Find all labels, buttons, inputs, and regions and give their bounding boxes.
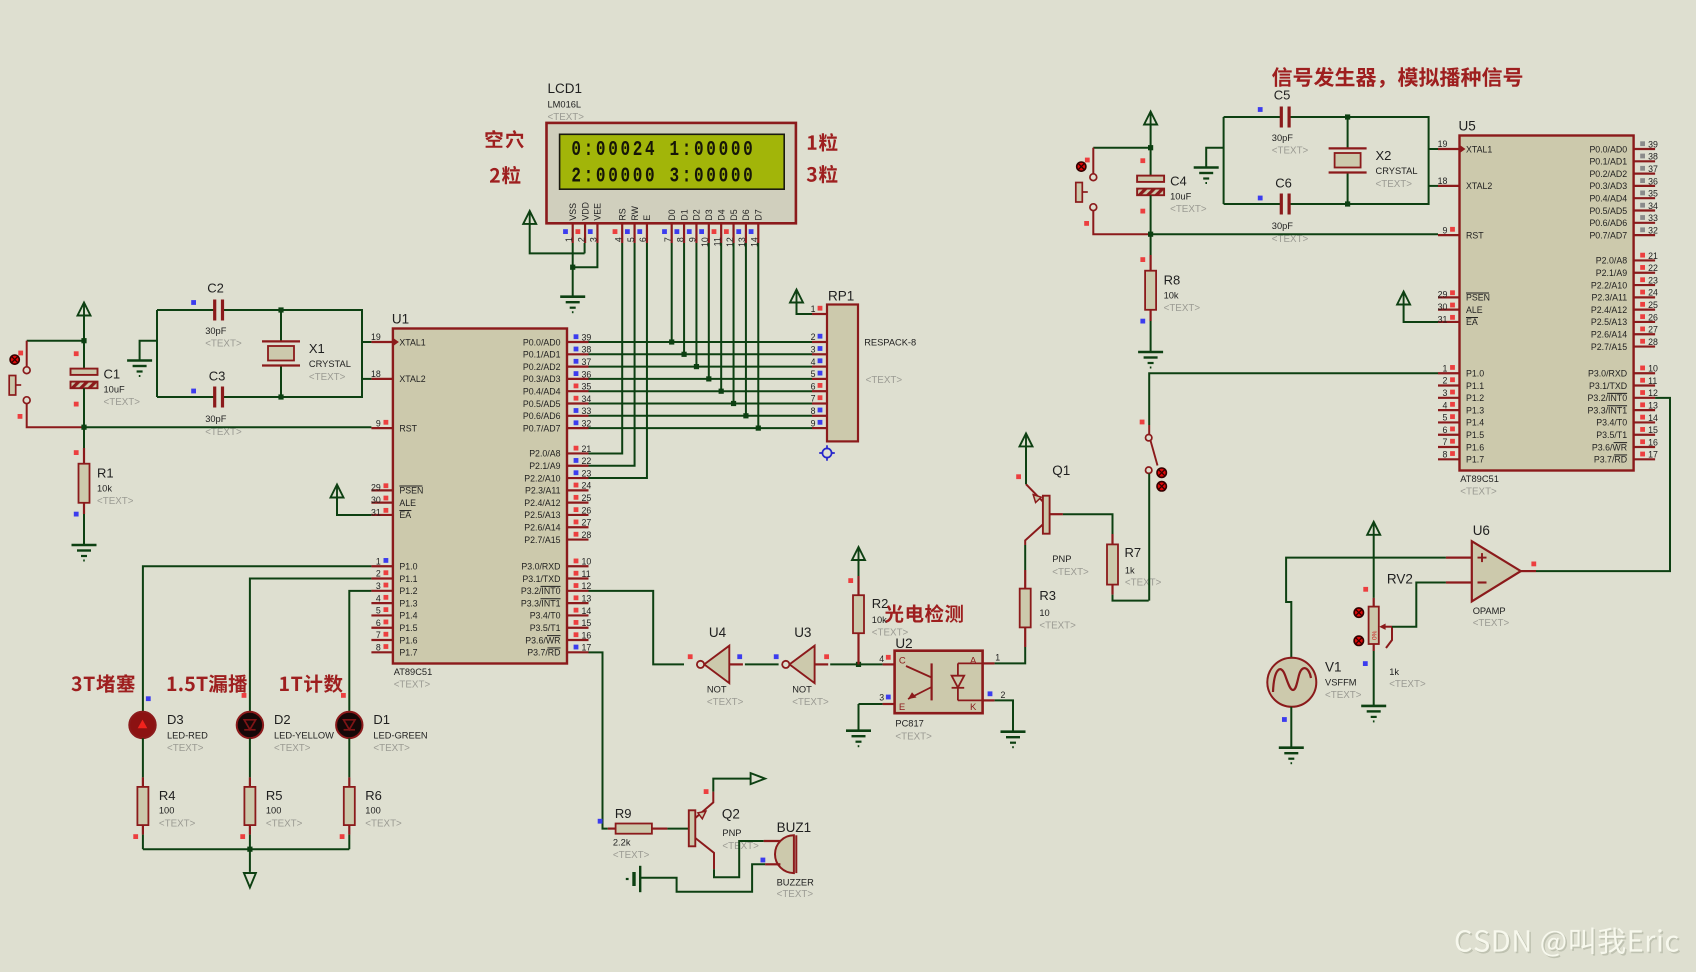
- U1 pin 25 P2.4/A12: [567, 502, 589, 504]
- resistor R1 10k: [83, 427, 85, 448]
- wire U2 pin1 to R3: [995, 647, 1026, 663]
- svg-text:2: 2: [1442, 376, 1447, 386]
- svg-text:P3.3/INT1: P3.3/INT1: [521, 598, 561, 608]
- svg-text:V1: V1: [1325, 660, 1342, 675]
- U5 pin 30 ALE: [1438, 309, 1460, 311]
- svg-text:33: 33: [582, 406, 592, 416]
- svg-text:LED-RED: LED-RED: [167, 730, 208, 740]
- svg-text:1: 1: [1442, 363, 1447, 373]
- svg-text:30pF: 30pF: [1272, 221, 1294, 231]
- U5 pin 17 P3.7/RD: [1634, 458, 1656, 460]
- svg-text:RST: RST: [399, 423, 417, 433]
- ground: [1138, 351, 1163, 354]
- svg-text:LED-GREEN: LED-GREEN: [373, 730, 427, 740]
- svg-text:6: 6: [811, 381, 816, 391]
- svg-text:30pF: 30pF: [1272, 133, 1294, 143]
- node D6 junction: [743, 413, 748, 418]
- svg-text:P0.5/AD5: P0.5/AD5: [523, 399, 561, 409]
- svg-text:P2.0/A8: P2.0/A8: [529, 449, 560, 459]
- power arrow LCD VDD: [523, 211, 536, 224]
- node XTAL taps: [278, 307, 283, 312]
- U5 pin 29 PSEN: [1438, 296, 1460, 298]
- svg-text:R3: R3: [1039, 588, 1056, 603]
- svg-text:P1.1: P1.1: [399, 574, 417, 584]
- node D3 junction: [706, 376, 711, 381]
- svg-text:8: 8: [376, 643, 381, 653]
- svg-text:7: 7: [811, 394, 816, 404]
- svg-text:P0.2/AD2: P0.2/AD2: [523, 362, 561, 372]
- svg-text:13: 13: [582, 594, 592, 604]
- power arrow RV2: [1367, 522, 1380, 535]
- U5 pin 13 P3.3/INT1: [1634, 409, 1656, 411]
- svg-text:U5: U5: [1459, 119, 1476, 134]
- svg-text:P0.7/AD7: P0.7/AD7: [1589, 230, 1627, 240]
- svg-text:P3.1/TXD: P3.1/TXD: [522, 574, 560, 584]
- U2 pin 2 K: [983, 699, 995, 701]
- U1 pin 7 P1.6: [371, 639, 393, 641]
- node D1 junction: [681, 352, 686, 357]
- svg-text:P0.3/AD3: P0.3/AD3: [1589, 181, 1627, 191]
- svg-text:P0.6/AD6: P0.6/AD6: [1589, 218, 1627, 228]
- wire P1.1 to D2: [250, 579, 372, 713]
- svg-text:U4: U4: [709, 625, 727, 640]
- svg-text:22: 22: [582, 456, 592, 466]
- label guangdian jiance: [885, 604, 963, 623]
- U5 pin 4 P1.3: [1438, 409, 1460, 411]
- resistor R9 2.2k: [608, 827, 616, 829]
- wire switch bottom: [27, 404, 84, 428]
- svg-text:25: 25: [582, 493, 592, 503]
- node D0 junction: [669, 339, 674, 344]
- svg-text:C: C: [899, 656, 906, 667]
- svg-text:P3.4/T0: P3.4/T0: [1596, 418, 1627, 428]
- U5 pin 22 P2.1/A9: [1634, 272, 1656, 274]
- svg-text:33: 33: [1648, 213, 1658, 223]
- battery cell: [639, 866, 641, 892]
- svg-text:<TEXT>: <TEXT>: [104, 397, 141, 408]
- svg-text:D4: D4: [716, 209, 726, 220]
- svg-text:32: 32: [582, 419, 592, 429]
- U1 pin 36 P0.3/AD3: [567, 378, 589, 380]
- svg-text:6: 6: [376, 618, 381, 628]
- ground U2 E: [846, 729, 871, 732]
- U5 pin 24 P2.3/A11: [1634, 296, 1656, 298]
- label 3T dusai: [72, 674, 136, 693]
- U1 pin 17 P3.7/RD: [567, 651, 589, 653]
- svg-text:24: 24: [582, 481, 592, 491]
- svg-text:P3.6/WR: P3.6/WR: [525, 635, 560, 645]
- svg-text:<TEXT>: <TEXT>: [1272, 146, 1309, 157]
- label signal generator title: [1272, 67, 1522, 88]
- wire LCD D4 drop: [720, 243, 722, 391]
- svg-text:AT89C51: AT89C51: [1460, 474, 1499, 484]
- svg-text:10: 10: [1648, 364, 1658, 374]
- svg-text:P1.2: P1.2: [399, 586, 417, 596]
- svg-text:7: 7: [663, 237, 673, 242]
- svg-text:D2: D2: [274, 712, 291, 727]
- node D7 junction: [756, 426, 761, 431]
- svg-text:2: 2: [811, 332, 816, 342]
- Q2 emitter lead: [695, 792, 713, 818]
- wire U1 P3.7/RD to R9: [589, 652, 608, 828]
- svg-text:R5: R5: [266, 788, 283, 803]
- svg-text:5: 5: [1442, 413, 1447, 423]
- wire LCD RS drop: [589, 243, 623, 453]
- label 2li: [490, 166, 521, 184]
- svg-text:P2.4/A12: P2.4/A12: [524, 498, 560, 508]
- resistor R8 10k: [1150, 234, 1152, 255]
- svg-text:39: 39: [1648, 139, 1658, 149]
- svg-text:P1.1: P1.1: [1466, 381, 1484, 391]
- svg-text:PC817: PC817: [895, 718, 923, 728]
- RP1 pin 1: [797, 303, 813, 315]
- svg-text:<TEXT>: <TEXT>: [1125, 578, 1162, 589]
- wire V1 to ground: [1290, 707, 1292, 748]
- U1 pin 22 P2.1/A9: [567, 465, 589, 467]
- wire to ground: [83, 514, 85, 545]
- watermark CSDN: [1457, 929, 1680, 958]
- svg-text:<TEXT>: <TEXT>: [205, 339, 242, 350]
- svg-text:15: 15: [582, 618, 592, 628]
- svg-text:P1.5: P1.5: [1466, 430, 1484, 440]
- svg-text:<TEXT>: <TEXT>: [895, 732, 932, 743]
- svg-text:EA: EA: [399, 510, 411, 520]
- inverter U4 NOT: [697, 663, 700, 665]
- svg-text:P2.1/A9: P2.1/A9: [529, 461, 560, 471]
- svg-text:4: 4: [811, 357, 816, 367]
- U1 pin 2 P1.1: [371, 577, 393, 579]
- svg-text:5: 5: [626, 237, 636, 242]
- capacitor C6: [1280, 194, 1283, 215]
- svg-text:18: 18: [1438, 176, 1448, 186]
- U1 pin 16 P3.6/WR: [567, 639, 589, 641]
- U5 pin 21 P2.0/A8: [1634, 259, 1656, 261]
- svg-text:8: 8: [811, 406, 816, 416]
- wire XTAL2: [362, 378, 371, 380]
- svg-text:P0.4/AD4: P0.4/AD4: [1589, 194, 1627, 204]
- svg-text:<TEXT>: <TEXT>: [613, 850, 650, 861]
- svg-text:RP1: RP1: [828, 289, 854, 304]
- ground: [1206, 148, 1223, 168]
- U2 pin 3 E: [859, 703, 883, 705]
- svg-text:P2.7/A15: P2.7/A15: [1591, 342, 1627, 352]
- svg-text:P3.7/RD: P3.7/RD: [527, 648, 560, 658]
- wire R3 to Q1 collector: [1024, 545, 1026, 570]
- svg-text:P0.4/AD4: P0.4/AD4: [523, 387, 561, 397]
- wire U6 output to U5 INT0: [1536, 398, 1670, 571]
- svg-text:34: 34: [582, 394, 592, 404]
- RP1 pin 9: [812, 427, 827, 429]
- svg-text:PNP: PNP: [722, 828, 741, 838]
- svg-text:<TEXT>: <TEXT>: [167, 743, 204, 754]
- svg-text:Q2: Q2: [722, 807, 740, 822]
- wire U4 to U3: [745, 663, 779, 665]
- U1 pin 33 P0.6/AD6: [567, 415, 589, 417]
- cursor crosshair: [819, 445, 835, 461]
- LED D1 LED-GREEN: [336, 712, 362, 738]
- svg-text:100: 100: [365, 805, 381, 815]
- terminal down arrow: [249, 849, 251, 872]
- svg-text:P2.1/A9: P2.1/A9: [1596, 268, 1627, 278]
- node rail junction: [247, 847, 252, 852]
- svg-text:31: 31: [371, 507, 381, 517]
- svg-text:XTAL1: XTAL1: [399, 337, 425, 347]
- resistor R3 10: [1024, 627, 1026, 647]
- svg-text:<TEXT>: <TEXT>: [159, 819, 196, 830]
- ground RV2: [1361, 705, 1386, 708]
- wire LCD RW drop: [589, 243, 635, 466]
- U1 pin 30 ALE: [371, 502, 393, 504]
- svg-text:30: 30: [1438, 302, 1448, 312]
- svg-text:14: 14: [1648, 413, 1658, 423]
- LCD screen: [560, 134, 785, 189]
- wire RST net: [84, 426, 371, 428]
- svg-text:CRYSTAL: CRYSTAL: [1376, 166, 1418, 176]
- svg-text:E: E: [642, 215, 652, 221]
- svg-text:4: 4: [376, 593, 381, 603]
- svg-text:P1.0: P1.0: [1466, 369, 1484, 379]
- wire RST net: [1151, 233, 1438, 235]
- U6 - input stub: [1446, 581, 1472, 583]
- U1 pin 4 P1.3: [371, 602, 393, 604]
- svg-text:R9: R9: [615, 806, 632, 821]
- wire VDD: [530, 224, 585, 254]
- crystal X2: [1347, 117, 1349, 148]
- svg-text:36: 36: [582, 369, 592, 379]
- U1 pin 35 P0.4/AD4: [567, 390, 589, 392]
- svg-text:7: 7: [1442, 437, 1447, 447]
- wire LCD D1 drop: [683, 243, 685, 354]
- RP1 pin 5: [812, 378, 827, 380]
- svg-text:P3.2/INT0: P3.2/INT0: [1587, 393, 1627, 403]
- wire buzzer bottom to battery: [640, 864, 765, 891]
- wire U5 P1.0 branch: [1149, 373, 1438, 425]
- wire R7 bottom to switch branch: [1113, 595, 1149, 601]
- svg-text:ALE: ALE: [1466, 305, 1483, 315]
- U5 pin 14 P3.4/T0: [1634, 421, 1656, 423]
- svg-text:11: 11: [582, 569, 591, 579]
- svg-text:12: 12: [1648, 388, 1658, 398]
- svg-text:P0.3/AD3: P0.3/AD3: [523, 374, 561, 384]
- svg-text:X1: X1: [309, 341, 325, 356]
- svg-text:U6: U6: [1473, 523, 1490, 538]
- wire to switch: [1093, 147, 1150, 149]
- svg-text:37: 37: [1648, 164, 1658, 174]
- wire XTAL1: [1429, 148, 1438, 150]
- svg-text:<TEXT>: <TEXT>: [722, 841, 759, 852]
- svg-text:D0: D0: [667, 209, 677, 220]
- crystal X1: [280, 310, 282, 341]
- U5 pin 15 P3.5/T1: [1634, 434, 1656, 436]
- wire Q1 base to R7: [1050, 513, 1063, 515]
- U1 pin 14 P3.4/T0: [567, 614, 589, 616]
- svg-text:P3.0/RXD: P3.0/RXD: [1588, 369, 1627, 379]
- resistor R4 100: [142, 777, 144, 787]
- svg-text:19: 19: [371, 332, 381, 342]
- svg-text:R7: R7: [1125, 545, 1142, 560]
- U5 pin 6 P1.5: [1438, 434, 1460, 436]
- svg-text:39: 39: [582, 332, 592, 342]
- U5 pin 5 P1.4: [1438, 421, 1460, 423]
- power arrow RP1: [790, 290, 803, 303]
- svg-text:P1.3: P1.3: [399, 598, 417, 608]
- U1 pin 32 P0.7/AD7: [567, 427, 589, 429]
- svg-text:10k: 10k: [1164, 291, 1179, 301]
- svg-text:RS: RS: [617, 208, 627, 220]
- U1 pin 12 P3.2/INT0: [567, 590, 589, 592]
- svg-text:P3.6/WR: P3.6/WR: [1592, 442, 1627, 452]
- svg-text:VSS: VSS: [568, 203, 578, 221]
- svg-text:38: 38: [1648, 152, 1658, 162]
- svg-text:30pF: 30pF: [205, 326, 227, 336]
- svg-text:6: 6: [638, 237, 648, 242]
- svg-text:<TEXT>: <TEXT>: [373, 743, 410, 754]
- svg-text:P2.6/A14: P2.6/A14: [524, 523, 560, 533]
- wire LCD D7 drop: [757, 243, 759, 428]
- svg-text:<TEXT>: <TEXT>: [1473, 618, 1510, 629]
- svg-text:D2: D2: [692, 209, 702, 220]
- resistor R2 10k: [858, 560, 860, 576]
- svg-text:R6: R6: [365, 788, 382, 803]
- svg-text:<TEXT>: <TEXT>: [1325, 690, 1362, 701]
- svg-text:P2.5/A13: P2.5/A13: [524, 510, 560, 520]
- U1 pin 18 XTAL2: [371, 378, 393, 380]
- svg-text:17: 17: [582, 643, 592, 653]
- U5 pin 10 P3.0/RXD: [1634, 372, 1656, 374]
- U5 pin 25 P2.4/A12: [1634, 309, 1656, 311]
- svg-text:P3.0/RXD: P3.0/RXD: [521, 562, 560, 572]
- svg-text:23: 23: [1648, 275, 1658, 285]
- svg-text:4: 4: [879, 654, 884, 664]
- svg-text:U3: U3: [794, 625, 811, 640]
- svg-text:D1: D1: [373, 712, 390, 727]
- U5 pin 33 P0.6/AD6: [1634, 222, 1656, 224]
- svg-text:<TEXT>: <TEXT>: [1052, 567, 1089, 578]
- wire XTAL1: [362, 341, 371, 343]
- svg-text:16: 16: [582, 630, 592, 640]
- svg-text:34: 34: [1648, 201, 1658, 211]
- U1 pin 21 P2.0/A8: [567, 452, 589, 454]
- svg-text:<TEXT>: <TEXT>: [266, 819, 303, 830]
- U1 pin 13 P3.3/INT1: [567, 602, 589, 604]
- svg-text:BUZZER: BUZZER: [777, 878, 814, 888]
- svg-text:RST: RST: [1466, 230, 1484, 240]
- svg-text:P2.2/A10: P2.2/A10: [524, 473, 560, 483]
- U1 pin 28 P2.7/A15: [567, 538, 589, 540]
- RV2 wiper: [1382, 626, 1393, 628]
- U1 pin 24 P2.3/A11: [567, 489, 589, 491]
- wire U2 pin3 to ground: [858, 704, 860, 731]
- svg-text:<TEXT>: <TEXT>: [548, 112, 585, 123]
- svg-text:24: 24: [1648, 288, 1658, 298]
- svg-text:<TEXT>: <TEXT>: [1389, 679, 1426, 690]
- svg-text:3: 3: [589, 237, 599, 242]
- svg-text:26: 26: [1648, 312, 1658, 322]
- U1 pin 38 P0.1/AD1: [567, 353, 589, 355]
- wire P0.7 bus: [589, 427, 813, 429]
- U5 pin 11 P3.1/TXD: [1634, 384, 1656, 386]
- svg-text:<TEXT>: <TEXT>: [274, 743, 311, 754]
- power arrow: [1144, 112, 1157, 125]
- svg-text:P0.2/AD2: P0.2/AD2: [1589, 169, 1627, 179]
- node XTAL taps: [1345, 114, 1350, 119]
- ground U2 K: [1001, 730, 1026, 733]
- svg-text:P1.7: P1.7: [399, 648, 417, 658]
- node VSS/VEE junction: [570, 265, 575, 270]
- label 1T jishu: [280, 674, 343, 692]
- svg-text:P0.5/AD5: P0.5/AD5: [1589, 206, 1627, 216]
- svg-text:U2: U2: [895, 636, 912, 651]
- svg-text:21: 21: [582, 444, 592, 454]
- svg-text:D3: D3: [167, 712, 184, 727]
- svg-text:17: 17: [1648, 450, 1658, 460]
- svg-text:Q1: Q1: [1052, 463, 1070, 478]
- wire LED ground rail: [143, 848, 349, 850]
- wire LCD D2 drop: [695, 243, 697, 367]
- svg-text:5: 5: [376, 606, 381, 616]
- svg-text:P3.1/TXD: P3.1/TXD: [1589, 381, 1627, 391]
- U5 pin 37 P0.2/AD2: [1634, 173, 1656, 175]
- svg-text:11: 11: [1648, 376, 1657, 386]
- U5 pin 26 P2.5/A13: [1634, 321, 1656, 323]
- RV2 indicator markers: [1354, 608, 1363, 617]
- svg-text:10uF: 10uF: [104, 385, 126, 395]
- node junction top: [1148, 145, 1153, 150]
- U1 pin 1 P1.0: [371, 565, 393, 567]
- svg-text:28: 28: [1648, 337, 1658, 347]
- switch: [26, 341, 28, 368]
- U1 pin 19 XTAL1: [371, 341, 393, 343]
- RP1 pin 4: [812, 366, 827, 368]
- svg-text:32: 32: [1648, 226, 1658, 236]
- svg-text:P0.0/AD0: P0.0/AD0: [1589, 144, 1627, 154]
- RP1 pin 6: [812, 390, 827, 392]
- svg-text:RV2: RV2: [1387, 572, 1413, 587]
- svg-text:XTAL2: XTAL2: [399, 374, 425, 384]
- svg-text:1k: 1k: [1125, 566, 1135, 576]
- label 3li: [807, 165, 838, 183]
- svg-text:P3.5/T1: P3.5/T1: [530, 623, 561, 633]
- svg-text:25: 25: [1648, 300, 1658, 310]
- wire C5 top loop: [1224, 116, 1282, 118]
- svg-text:<TEXT>: <TEXT>: [1164, 303, 1201, 314]
- svg-text:8: 8: [675, 237, 685, 242]
- svg-text:<TEXT>: <TEXT>: [97, 496, 134, 507]
- power arrow Q1 emitter: [1020, 433, 1033, 446]
- resistor R7 1k: [1111, 534, 1113, 544]
- wire switch bottom: [1093, 211, 1150, 235]
- wire R6 to rail: [348, 835, 350, 850]
- RP1 pin 7: [812, 402, 827, 404]
- svg-text:P1.2: P1.2: [1466, 393, 1484, 403]
- wire P0.5 bus: [589, 403, 813, 405]
- RP1 pin 3: [812, 353, 827, 355]
- IC body U5 AT89C51: [1460, 136, 1634, 471]
- svg-text:3: 3: [879, 692, 884, 702]
- svg-text:9: 9: [688, 237, 698, 242]
- svg-text:100: 100: [159, 805, 175, 815]
- node D2 junction: [694, 364, 699, 369]
- svg-text:<TEXT>: <TEXT>: [309, 372, 346, 383]
- svg-text:26: 26: [582, 505, 592, 515]
- svg-text:BUZ1: BUZ1: [777, 820, 812, 835]
- power arrow: [78, 303, 91, 316]
- wire P0.6 bus: [589, 415, 813, 417]
- svg-text:LM016L: LM016L: [548, 100, 582, 110]
- svg-text:2:00000 3:00000: 2:00000 3:00000: [571, 164, 755, 189]
- U1 pin 9 RST: [371, 427, 393, 429]
- svg-text:RESPACK-8: RESPACK-8: [864, 338, 916, 348]
